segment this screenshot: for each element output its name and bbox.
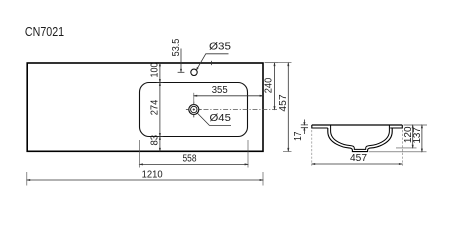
dimension 274 (150, 99, 161, 115)
dimension 17 (rim thickness) (293, 120, 308, 141)
dimension 355 (drain to right edge) (193, 85, 264, 103)
svg-text:100: 100 (150, 62, 161, 77)
basin section: bowl outer wall (328, 128, 392, 152)
svg-text:457: 457 (350, 153, 367, 164)
basin section: rim top line (312, 124, 403, 126)
svg-text:CN7021: CN7021 (25, 25, 64, 39)
svg-text:457: 457 (278, 94, 289, 112)
svg-text:1210: 1210 (142, 170, 163, 181)
drain hole outer circle (189, 105, 199, 115)
svg-text:558: 558 (183, 154, 197, 165)
svg-text:240: 240 (264, 77, 275, 93)
dimension 240 (top edge to drain centre) (264, 62, 279, 111)
svg-text:355: 355 (212, 85, 228, 96)
basin rim rounded rectangle (top view) (140, 83, 248, 137)
dimension 457 (top view depth) (265, 62, 292, 153)
svg-text:Ø45: Ø45 (210, 113, 232, 124)
chain dimension line 100/274/83 (157, 62, 164, 152)
svg-text:137: 137 (412, 127, 423, 144)
tick on top edge (211, 61, 213, 65)
basin section: bowl inner wall (331, 125, 390, 149)
countertop outline (top view) (27, 63, 263, 151)
svg-text:53.5: 53.5 (171, 38, 182, 56)
drain hole inner circle (191, 106, 197, 112)
dimension 457 (section width) (311, 130, 404, 166)
dimension 137 (overall depth) (369, 124, 427, 153)
svg-text:17: 17 (293, 131, 304, 141)
dimension 1210 (overall width) (26, 170, 264, 186)
basin section: rim bottom lines and end caps (312, 125, 403, 128)
faucet hole circle (191, 69, 197, 75)
dimension 83 (150, 134, 161, 145)
dimension 120 (bowl depth) (396, 124, 427, 149)
svg-text:274: 274 (150, 99, 161, 115)
dimension 100 (150, 62, 161, 77)
model number CN7021 (25, 25, 64, 39)
drain hole center marks (186, 102, 202, 118)
dimension 53.5 (faucet hole offset) (171, 38, 185, 73)
dimension 558 (basin width) (139, 140, 250, 168)
svg-text:Ø35: Ø35 (209, 42, 232, 53)
label diameter 45 (drain leader) (198, 113, 232, 125)
svg-text:83: 83 (150, 134, 161, 145)
label diameter 35 (faucet hole leader) (196, 42, 232, 71)
drain centerline (dash-dot to right) (204, 109, 278, 111)
